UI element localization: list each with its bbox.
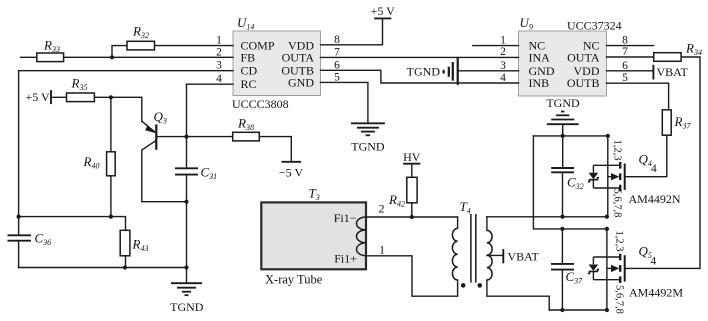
- svg-text:+5 V: +5 V: [26, 90, 51, 104]
- svg-text:3: 3: [500, 60, 506, 72]
- svg-text:CD: CD: [241, 64, 258, 78]
- svg-text:1: 1: [216, 35, 222, 47]
- svg-text:INB: INB: [529, 76, 550, 90]
- svg-text:Fi1−: Fi1−: [334, 211, 357, 225]
- svg-text:TGND: TGND: [351, 139, 385, 153]
- svg-text:2: 2: [500, 46, 506, 58]
- svg-text:4: 4: [651, 163, 657, 175]
- svg-text:VBAT: VBAT: [657, 65, 689, 79]
- svg-text:2: 2: [216, 46, 222, 58]
- svg-text:4: 4: [651, 256, 657, 268]
- svg-text:5: 5: [334, 71, 340, 83]
- svg-text:7: 7: [334, 47, 340, 59]
- svg-text:1: 1: [379, 242, 385, 256]
- svg-text:Fi1+: Fi1+: [334, 251, 357, 265]
- svg-text:OUTA: OUTA: [567, 50, 600, 64]
- svg-text:OUTB: OUTB: [567, 76, 600, 90]
- svg-text:UCCC3808: UCCC3808: [232, 97, 289, 111]
- svg-text:7: 7: [622, 46, 628, 58]
- svg-text:5,6,7,8: 5,6,7,8: [614, 285, 625, 314]
- svg-text:3: 3: [216, 60, 222, 72]
- svg-text:X-ray Tube: X-ray Tube: [265, 273, 323, 287]
- svg-text:HV: HV: [403, 150, 421, 164]
- svg-text:1,2,3: 1,2,3: [612, 140, 623, 161]
- svg-text:FB: FB: [241, 50, 256, 64]
- svg-text:4: 4: [500, 72, 506, 84]
- svg-text:AM4492M: AM4492M: [629, 286, 683, 300]
- svg-text:UCC37324: UCC37324: [567, 19, 622, 33]
- svg-text:5,6,7,8: 5,6,7,8: [612, 189, 623, 218]
- svg-text:5: 5: [622, 72, 628, 84]
- svg-text:RC: RC: [241, 77, 257, 91]
- svg-text:INA: INA: [529, 50, 551, 64]
- svg-text:TGND: TGND: [407, 65, 441, 79]
- svg-text:8: 8: [334, 34, 340, 46]
- svg-text:6: 6: [622, 60, 628, 72]
- svg-text:6: 6: [334, 59, 340, 71]
- svg-text:2: 2: [379, 202, 385, 216]
- svg-text:−5 V: −5 V: [279, 166, 304, 180]
- svg-text:+5 V: +5 V: [371, 4, 396, 18]
- svg-text:1: 1: [500, 35, 506, 47]
- svg-text:AM4492N: AM4492N: [629, 192, 681, 206]
- svg-text:4: 4: [216, 73, 222, 85]
- svg-text:TGND: TGND: [170, 300, 204, 314]
- svg-text:8: 8: [622, 35, 628, 47]
- svg-text:VBAT: VBAT: [508, 249, 540, 263]
- svg-text:GND: GND: [288, 75, 314, 89]
- svg-text:TGND: TGND: [546, 96, 580, 110]
- svg-text:1,2,3: 1,2,3: [614, 231, 625, 252]
